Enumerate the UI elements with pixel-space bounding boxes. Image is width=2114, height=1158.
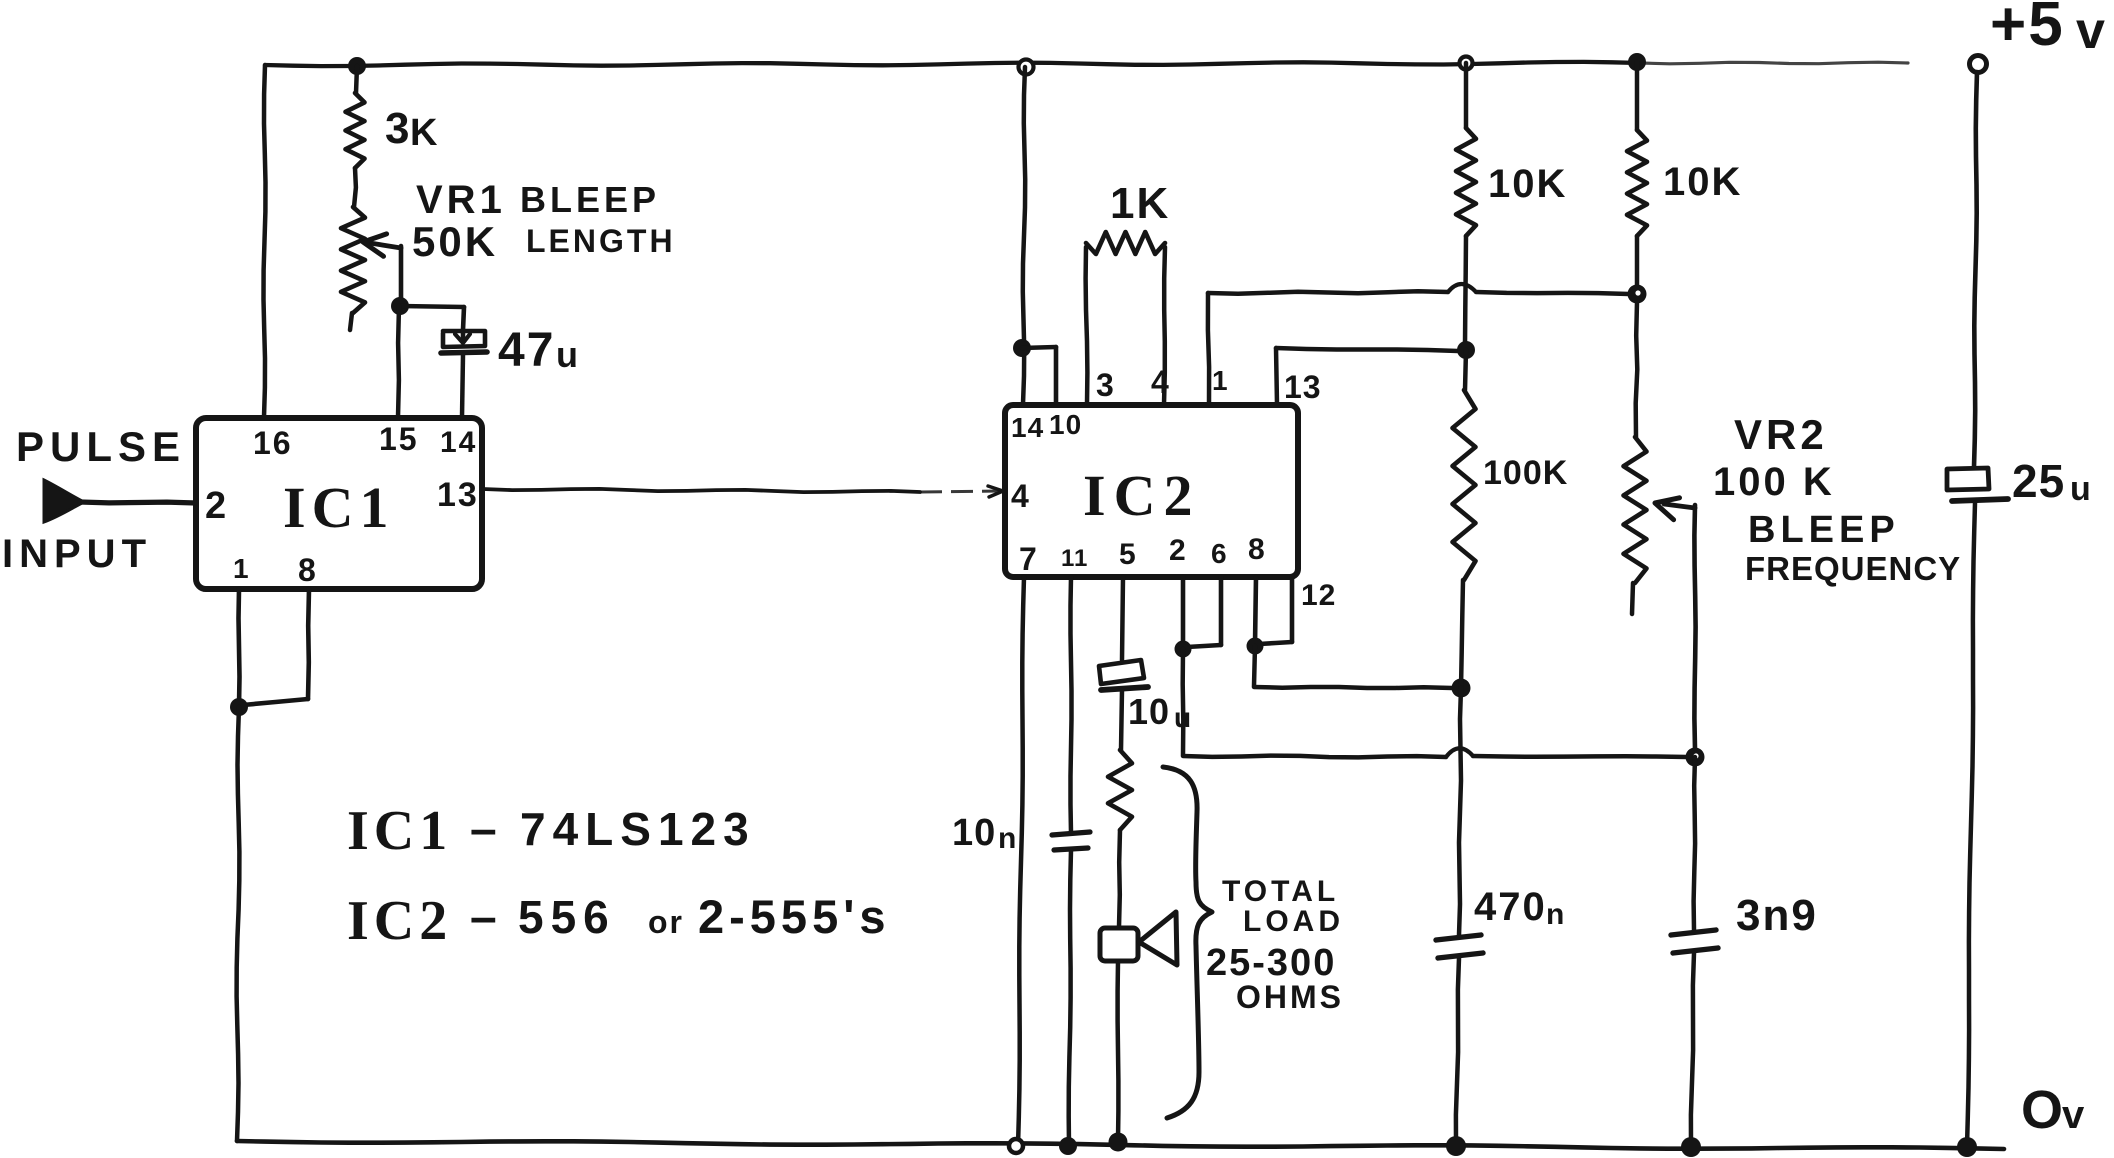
wire IC2 pin 12 down and jog	[1259, 577, 1292, 644]
label 10K value (right)	[1663, 160, 1742, 204]
node junction: IC2 supply split	[1013, 339, 1031, 357]
wire IC1 pin 1 down	[239, 589, 240, 706]
pin label IC2-4top	[1151, 364, 1169, 400]
pin label IC1-15	[379, 421, 419, 457]
svg-text:2-555's: 2-555's	[698, 890, 891, 943]
svg-text:IC2: IC2	[347, 890, 452, 952]
wire pins 2/6 to VR2 wiper node (hops over 100K line)	[1183, 649, 1687, 757]
wire top rail to IC2 pin 14	[1023, 67, 1025, 404]
svg-text:FREQUENCY: FREQUENCY	[1745, 550, 1961, 587]
capacitor C 3n9 plates	[1671, 930, 1718, 953]
label 10n value	[952, 812, 1016, 855]
resistor 100K	[1453, 350, 1476, 688]
label TOTAL	[1222, 875, 1339, 908]
node junction: pin 7 / 0V rail	[1009, 1139, 1023, 1153]
node junction: top rail to 10K (left)	[1460, 57, 1473, 70]
svg-text:1K: 1K	[1110, 179, 1170, 228]
svg-text:TOTAL: TOTAL	[1222, 875, 1339, 908]
node junction: pin 11 / 0V rail	[1059, 1137, 1077, 1155]
input terminal triangle	[44, 480, 84, 522]
node junction: 470n / 0V rail	[1446, 1136, 1466, 1156]
label IC2 - 556 or 2-555's	[347, 890, 891, 952]
node junction: top rail to IC2 supply drop	[1019, 60, 1034, 75]
pin label IC2-8	[1248, 533, 1265, 566]
label INPUT	[2, 532, 152, 576]
svg-text:O: O	[2021, 1080, 2063, 1140]
svg-text:4: 4	[1151, 364, 1169, 400]
wiper arrow VR1	[363, 234, 401, 305]
capacitor C 10n plates	[1052, 832, 1090, 850]
node junction: IC2 pin1 net / VR2 top	[1628, 285, 1647, 304]
svg-text:6: 6	[1211, 538, 1227, 569]
svg-text:2: 2	[205, 485, 226, 527]
svg-text:IC2: IC2	[1083, 463, 1200, 528]
wire wiper junction to 47u top	[400, 306, 464, 330]
svg-text:100K: 100K	[1483, 454, 1568, 492]
svg-text:LOAD: LOAD	[1243, 905, 1344, 938]
wire rail corner down to IC1 pin 16	[264, 65, 266, 417]
svg-text:5: 5	[1119, 538, 1136, 571]
svg-text:25: 25	[2012, 455, 2065, 507]
svg-text:25-300: 25-300	[1206, 942, 1336, 984]
svg-text:VR2: VR2	[1734, 411, 1828, 458]
wire pins 1/8 junction down to 0V rail	[237, 707, 240, 1141]
label 1K value	[1110, 179, 1170, 228]
svg-text:v: v	[2076, 2, 2105, 60]
wire IC2 pin 8 down	[1255, 577, 1256, 645]
svg-text:+5: +5	[1990, 0, 2065, 59]
node junction: VR1 wiper / 47u / IC1 pin 15	[391, 297, 409, 315]
svg-text:u: u	[556, 334, 578, 375]
node junction: top rail to 3K resistor	[348, 57, 366, 75]
wire IC2 pin 7 to 0V	[1018, 577, 1024, 1146]
svg-text:2: 2	[1169, 534, 1186, 567]
resistor 10K (right)	[1627, 62, 1647, 286]
speaker LS1	[1100, 912, 1177, 965]
svg-text:n: n	[998, 822, 1016, 855]
wire IC2 pin 6 down and jog	[1187, 577, 1221, 647]
svg-text:13: 13	[437, 476, 479, 514]
svg-text:10K: 10K	[1663, 160, 1742, 204]
wire 0V bottom rail	[237, 1141, 2004, 1149]
label 10K value (left)	[1488, 162, 1567, 206]
label PULSE	[16, 423, 186, 470]
node junction: IC1 pins 1+8	[230, 698, 248, 716]
wire VR2 wiper node down to 3n9	[1694, 757, 1696, 930]
svg-text:–: –	[470, 891, 497, 944]
svg-text:47: 47	[498, 324, 555, 377]
svg-text:u: u	[2070, 470, 2091, 508]
op-amp/IC U2 IC2 box	[1005, 405, 1298, 577]
svg-text:3: 3	[1096, 367, 1114, 403]
resistor 10K (left)	[1456, 63, 1476, 345]
resistor 1K between IC2 pins 3 and 4	[1086, 232, 1165, 404]
wire IC1 pin 13 to IC2 pin 4	[483, 486, 1003, 497]
label IC2 name	[1083, 463, 1200, 528]
capacitor C 47u (electrolytic)	[441, 330, 487, 353]
label 3K value	[385, 104, 438, 154]
node +5v supply terminal	[1970, 56, 1987, 73]
wire IC2 pin 11 lower to 0V	[1069, 850, 1071, 1146]
label IC1 name	[283, 475, 394, 540]
svg-text:v: v	[2062, 1093, 2085, 1137]
pin label IC1-16	[253, 425, 293, 461]
potentiometer VR2 100K track	[1624, 302, 1647, 614]
resistor 3K	[346, 66, 365, 207]
pin label IC2-13top	[1284, 369, 1322, 405]
svg-text:INPUT: INPUT	[2, 532, 152, 576]
wire IC2 pin 11 upper	[1071, 577, 1072, 833]
svg-text:K: K	[410, 112, 438, 154]
wiper arrow VR2	[1655, 498, 1696, 749]
potentiometer VR1 50K track	[341, 207, 365, 330]
label VR2 100K value	[1713, 460, 1835, 504]
wire 100K junction down to 470n	[1459, 688, 1461, 935]
label 47u value	[498, 324, 578, 377]
svg-text:1: 1	[1212, 365, 1228, 396]
svg-text:16: 16	[253, 425, 293, 461]
label FREQUENCY (VR2)	[1745, 550, 1961, 587]
capacitor C 470n plates	[1436, 935, 1483, 958]
pin label IC2-5	[1119, 538, 1136, 571]
node junction: IC2 pins 2+6	[1175, 641, 1192, 658]
svg-text:VR1: VR1	[416, 178, 506, 222]
svg-text:–: –	[470, 803, 497, 856]
svg-text:LENGTH: LENGTH	[526, 223, 676, 259]
svg-text:15: 15	[379, 421, 419, 457]
svg-text:12: 12	[1301, 579, 1336, 612]
node junction: IC2 pins 8+12	[1247, 638, 1264, 655]
svg-text:IC1: IC1	[283, 475, 394, 540]
label IC1 - 74LS123	[347, 800, 756, 862]
resistor load (unlabeled, in series with speaker)	[1108, 750, 1132, 830]
wire IC1 pin 8 down and jog left	[243, 589, 309, 705]
svg-text:PULSE: PULSE	[16, 423, 186, 470]
pin label IC1-1	[233, 553, 249, 584]
svg-text:10: 10	[952, 812, 996, 854]
svg-text:7: 7	[1019, 541, 1037, 577]
capacitor C 25u (electrolytic)	[1947, 468, 2008, 501]
wire branch to IC2 pin 10	[1022, 347, 1056, 404]
wire pins 8/12 to 100K bottom junction	[1254, 646, 1452, 688]
node junction: speaker / 0V rail	[1109, 1133, 1128, 1152]
pin label IC2-4	[1011, 478, 1029, 514]
pin label IC1-13	[437, 476, 479, 514]
label 25-300	[1206, 942, 1336, 984]
node junction: VR2 wiper net	[1686, 748, 1705, 767]
label 100K value	[1483, 454, 1568, 492]
label LOAD	[1243, 905, 1344, 938]
svg-text:8: 8	[1248, 533, 1265, 566]
label 470n value	[1474, 885, 1564, 931]
svg-text:BLEEP: BLEEP	[1748, 509, 1900, 551]
label +5v	[1990, 0, 2105, 60]
svg-text:10K: 10K	[1488, 162, 1567, 206]
pin label IC2-1	[1212, 365, 1228, 396]
svg-text:OHMS: OHMS	[1236, 979, 1344, 1015]
svg-text:IC1: IC1	[347, 800, 452, 862]
pin label IC2-6	[1211, 538, 1227, 569]
svg-text:100 K: 100 K	[1713, 460, 1835, 504]
svg-text:14: 14	[440, 426, 477, 459]
svg-text:8: 8	[298, 552, 316, 588]
label OHMS	[1236, 979, 1344, 1015]
label VR2	[1734, 411, 1828, 458]
pin label IC2-10	[1049, 409, 1082, 440]
svg-text:n: n	[1546, 898, 1564, 931]
svg-text:470: 470	[1474, 885, 1547, 929]
wire 47u bottom to IC1 pin 14	[462, 355, 463, 417]
svg-text:BLEEP: BLEEP	[520, 179, 660, 220]
svg-text:74LS123: 74LS123	[520, 803, 756, 855]
node junction: 3n9 / 0V rail	[1681, 1137, 1701, 1157]
wire load resistor to speaker	[1119, 830, 1120, 927]
svg-text:1: 1	[233, 553, 249, 584]
wire speaker to 0V	[1115, 961, 1120, 1141]
wire input triangle to IC1 pin 2	[80, 502, 196, 503]
label 10u value	[1128, 691, 1191, 733]
pin label IC2-2	[1169, 534, 1186, 567]
wire +5v terminal down to 25u	[1974, 72, 1977, 467]
svg-text:3: 3	[385, 104, 409, 153]
node junction: top rail to 10K (right)	[1628, 53, 1646, 71]
node junction: pin13 net on 10K/100K line	[1457, 341, 1475, 359]
brace total load	[1163, 767, 1212, 1118]
wire +5V top rail	[265, 62, 1908, 66]
wire 470n to 0V	[1456, 958, 1459, 1146]
wire IC2 pin 1 to VR2 top node (hops over 10K/100K line)	[1208, 284, 1629, 404]
pin label IC1-14	[440, 426, 477, 459]
label 50K LENGTH	[412, 218, 676, 265]
svg-text:or: or	[648, 904, 684, 940]
label VR1 BLEEP	[416, 178, 660, 222]
label 25u value	[2012, 455, 2091, 508]
pin label IC2-3	[1096, 367, 1114, 403]
pin label IC2-7	[1019, 541, 1037, 577]
svg-text:10: 10	[1128, 691, 1170, 732]
svg-text:14: 14	[1011, 412, 1044, 443]
node junction: 25u / 0V rail	[1957, 1137, 1977, 1157]
label Ov	[2021, 1080, 2085, 1140]
pin label IC2-11	[1061, 545, 1088, 572]
svg-text:3n9: 3n9	[1736, 891, 1818, 940]
svg-text:13: 13	[1284, 369, 1322, 405]
svg-text:10: 10	[1049, 409, 1082, 440]
svg-text:11: 11	[1061, 545, 1088, 572]
label BLEEP (VR2)	[1748, 509, 1900, 551]
svg-text:50K: 50K	[412, 218, 498, 265]
pin label IC2-14	[1011, 412, 1044, 443]
pin label IC1-2	[205, 485, 226, 527]
wire 10u to load resistor	[1121, 690, 1122, 750]
pin label IC1-8	[298, 552, 316, 588]
node junction: 100K / 470n / pin8 net	[1452, 679, 1471, 698]
capacitor C 10u (electrolytic)	[1099, 660, 1148, 690]
wire wiper junction to IC1 pin 15	[398, 306, 399, 417]
wire IC2 pin 2 down	[1181, 577, 1186, 648]
pin label IC2-12	[1301, 579, 1336, 612]
op-amp/IC U1 IC1 box	[196, 418, 482, 589]
svg-text:4: 4	[1011, 478, 1029, 514]
wire IC2 pin 5 down to 10u	[1122, 577, 1123, 660]
label 3n9 value	[1736, 891, 1818, 940]
wire 25u to 0V	[1967, 503, 1975, 1146]
wire IC2 pin 13 to 10K/100K junction	[1276, 348, 1458, 404]
svg-text:556: 556	[518, 891, 616, 943]
wire 3n9 to 0V	[1691, 953, 1694, 1147]
